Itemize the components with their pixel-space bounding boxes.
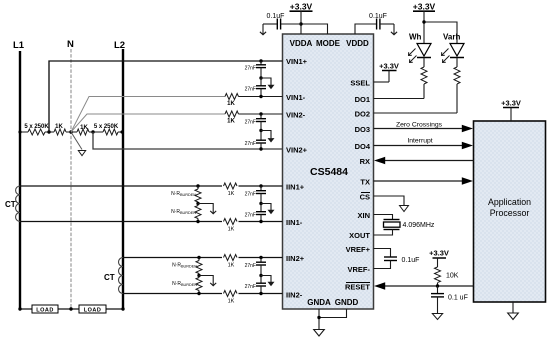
ground (VDDA cap) <box>260 24 266 35</box>
svg-text:IIN2-: IIN2- <box>286 291 303 300</box>
svg-text:27nF: 27nF <box>245 213 256 219</box>
svg-text:0.1uF: 0.1uF <box>369 13 387 20</box>
wire VIN1- to chip <box>239 96 283 98</box>
svg-text:XOUT: XOUT <box>349 231 370 240</box>
svg-text:+3.3V: +3.3V <box>379 62 399 71</box>
capacitor 0.1uF (VDDD) <box>369 13 394 30</box>
svg-text:+3.3V: +3.3V <box>290 2 313 12</box>
ground (App Processor) <box>508 302 519 320</box>
svg-text:L1: L1 <box>13 40 25 51</box>
ground arm IIN2 burden mid <box>197 274 216 286</box>
resistor N·R burden (IIN1 bottom) <box>171 204 201 224</box>
svg-text:Interrupt: Interrupt <box>407 138 432 145</box>
svg-text:DO1: DO1 <box>355 95 370 104</box>
svg-text:27nF: 27nF <box>245 192 256 198</box>
wire SSEL <box>374 81 390 83</box>
ground (VDDD cap) <box>391 24 397 35</box>
pin RESET (active low) <box>345 283 370 292</box>
svg-text:MODE: MODE <box>316 39 341 48</box>
svg-text:VDDD: VDDD <box>346 39 369 48</box>
wire LED rail <box>424 22 457 44</box>
svg-text:27nF: 27nF <box>245 263 256 269</box>
resistor 1K (IIN2+) <box>222 254 239 269</box>
ground arm IIN1 cap mid <box>259 202 274 214</box>
svg-text:LOAD: LOAD <box>84 308 102 314</box>
wire DO2 <box>374 112 458 114</box>
wire RESET <box>374 282 474 289</box>
node dot load-L2 <box>121 307 124 310</box>
ground at divider center <box>71 132 86 156</box>
svg-text:Zero Crossings: Zero Crossings <box>396 121 443 128</box>
svg-text:CT: CT <box>5 200 16 209</box>
svg-text:Application: Application <box>488 197 531 207</box>
svg-text:27nF: 27nF <box>245 284 256 290</box>
svg-text:0.1uF: 0.1uF <box>267 13 285 20</box>
Application Processor U2 <box>474 121 546 302</box>
svg-text:0.1uF: 0.1uF <box>402 257 420 264</box>
node N <box>67 39 74 309</box>
svg-text:1K: 1K <box>228 299 235 305</box>
LED Varh D2 <box>442 33 465 63</box>
resistor N·R burden (IIN2 bottom) <box>172 276 202 296</box>
resistor N·R burden (IIN1 top) <box>171 184 201 203</box>
svg-text:0.1 uF: 0.1 uF <box>448 295 468 302</box>
supply +3.3V (VDDA) <box>290 2 313 25</box>
svg-text:DO4: DO4 <box>355 142 371 151</box>
node dot at L1 divider <box>18 130 21 133</box>
svg-text:1K: 1K <box>55 124 63 130</box>
svg-text:1K: 1K <box>227 119 235 125</box>
resistor 5 x 250K (left) <box>24 124 49 135</box>
resistor 1K (N-right) <box>77 125 89 135</box>
load box 2 <box>79 305 106 314</box>
svg-text:TX: TX <box>360 178 370 187</box>
svg-text:1K: 1K <box>80 125 88 131</box>
node junction dot at N <box>69 130 72 133</box>
svg-text:RX: RX <box>360 157 370 166</box>
capacitor 0.1uF (VDDA) <box>263 13 301 30</box>
wire IIN1+ run <box>20 185 283 187</box>
svg-text:+3.3V: +3.3V <box>413 2 436 12</box>
wire DO4 Interrupt <box>374 138 474 150</box>
wire CS to ground <box>374 196 409 212</box>
svg-text:VIN1-: VIN1- <box>286 93 306 102</box>
capacitor 0.1 uF (RESET) <box>431 286 468 314</box>
supply +3.3V (RESET pullup) <box>429 249 449 268</box>
svg-text:N: N <box>67 39 74 50</box>
resistor 1K (IIN2-) <box>222 290 239 305</box>
wire VIN1- diagonal and run <box>71 97 225 133</box>
svg-text:SSEL: SSEL <box>350 79 370 88</box>
node L1 <box>13 40 25 309</box>
resistor 1K (IIN1-) <box>222 218 239 233</box>
transformer CT1 coil on L1 <box>5 186 20 221</box>
svg-text:CS: CS <box>360 193 370 202</box>
node junction dot at x49 <box>47 130 50 133</box>
wire GNDA/GNDD to ground <box>317 309 346 330</box>
ground arm VIN1 mid <box>259 76 274 89</box>
capacitor 27nF (VIN1+ top) <box>245 59 266 78</box>
IC U1 CS5484 body <box>283 34 374 309</box>
ground (RESET cap) <box>432 314 442 320</box>
svg-text:IIN1+: IIN1+ <box>286 183 305 192</box>
capacitor 27nF (VIN1- bottom) <box>245 78 266 98</box>
resistor 1K (IIN1+) <box>222 182 239 197</box>
wire VDDD rail <box>355 24 376 34</box>
svg-text:RESET: RESET <box>345 283 370 292</box>
wire load rail <box>20 308 123 310</box>
svg-text:LOAD: LOAD <box>36 308 54 314</box>
resistor (Varh LED) <box>454 58 460 114</box>
wire IIN2+ run <box>123 257 283 259</box>
wire VIN1+ riser and run to chip <box>49 61 283 132</box>
svg-text:27nF: 27nF <box>245 141 256 147</box>
svg-text:5 x 250K: 5 x 250K <box>24 124 49 130</box>
supply +3.3V (App Processor) <box>501 99 521 122</box>
svg-text:1K: 1K <box>228 263 235 269</box>
transformer CT2 coil on L2 <box>104 258 123 294</box>
svg-text:Wh: Wh <box>409 33 422 42</box>
resistor 1K (L1-N) <box>54 124 66 135</box>
capacitor 27nF (IIN2+ top) <box>245 256 266 276</box>
svg-text:DO2: DO2 <box>355 110 370 119</box>
svg-text:CT: CT <box>104 273 115 282</box>
svg-text:1K: 1K <box>228 227 235 233</box>
resistor 1K (VIN1-) <box>225 94 239 108</box>
svg-text:27nF: 27nF <box>245 66 256 72</box>
svg-text:CS5484: CS5484 <box>310 166 348 178</box>
node L2 <box>114 40 125 309</box>
svg-text:VIN2-: VIN2- <box>286 111 306 120</box>
capacitor 27nF (VIN2+ bottom) <box>245 131 266 151</box>
svg-text:10K: 10K <box>446 273 459 280</box>
svg-text:5 x 250K: 5 x 250K <box>94 124 119 130</box>
pin CS (active low) <box>360 193 370 202</box>
svg-text:GNDD: GNDD <box>335 298 359 307</box>
capacitor 0.1uF (VREF) <box>374 249 420 269</box>
ground arm IIN1 burden mid <box>196 202 216 214</box>
wire IIN2- run <box>123 293 283 295</box>
wire IIN1- run <box>20 221 283 223</box>
resistor N·R burden (IIN2 top) <box>172 256 202 276</box>
node dot load-L1 <box>18 307 21 310</box>
supply +3.3V (SSEL) <box>379 62 399 83</box>
svg-text:+3.3V: +3.3V <box>429 249 449 258</box>
svg-text:VIN1+: VIN1+ <box>286 57 308 66</box>
svg-text:DO3: DO3 <box>355 125 370 134</box>
node dot at L2 divider <box>120 130 123 133</box>
load box 1 <box>32 305 58 314</box>
node junction dot at x93 <box>91 130 94 133</box>
resistor (Wh LED) <box>421 58 427 99</box>
capacitor 27nF (IIN1- bottom) <box>245 204 266 224</box>
capacitor 27nF (VIN2- top) <box>245 112 266 130</box>
ground arm VIN2 mid <box>259 129 274 143</box>
wire DO3 Zero Crossings <box>374 121 474 132</box>
svg-text:1K: 1K <box>227 101 235 107</box>
svg-text:4.096MHz: 4.096MHz <box>403 222 435 229</box>
node dot LED rail <box>422 20 425 23</box>
svg-text:27nF: 27nF <box>245 87 256 93</box>
resistor 10K <box>435 267 459 286</box>
svg-text:27nF: 27nF <box>245 120 256 126</box>
wire VIN2+ drop and run to chip <box>93 132 283 149</box>
svg-text:VREF+: VREF+ <box>346 245 371 254</box>
svg-text:GNDA: GNDA <box>307 298 331 307</box>
crystal Y1 4.096MHz <box>374 215 435 236</box>
wire RX <box>374 157 474 164</box>
svg-text:IIN2+: IIN2+ <box>286 254 305 263</box>
resistor 5 x 250K (right) <box>94 124 119 135</box>
ground arm IIN2 cap mid <box>259 274 274 286</box>
svg-text:+3.3V: +3.3V <box>501 99 521 108</box>
wire VIN2- to chip <box>239 113 283 115</box>
svg-text:Varh: Varh <box>443 33 460 42</box>
svg-text:Processor: Processor <box>490 208 530 218</box>
svg-text:VIN2+: VIN2+ <box>286 146 308 155</box>
wire DO1 <box>374 98 425 100</box>
capacitor 27nF (IIN1+ top) <box>245 184 266 203</box>
svg-text:1K: 1K <box>228 191 235 197</box>
wire VDDA/MODE rail <box>301 24 328 34</box>
wire VIN2- diagonal and run <box>71 114 225 132</box>
capacitor 27nF (IIN2- bottom) <box>245 276 266 296</box>
wire divider row L1 to L2 <box>20 131 123 133</box>
wire TX <box>374 177 474 184</box>
ground (chip) <box>314 330 325 337</box>
svg-text:VREF-: VREF- <box>348 265 371 274</box>
svg-text:VDDA: VDDA <box>290 39 313 48</box>
resistor 1K (VIN2-) <box>225 111 239 125</box>
node dot VDDA rail <box>299 22 302 25</box>
svg-text:IIN1-: IIN1- <box>286 218 303 227</box>
LED Wh D1 <box>409 33 432 63</box>
svg-text:XIN: XIN <box>357 211 370 220</box>
node dot load-N <box>69 307 72 310</box>
supply +3.3V (LED rail) <box>413 2 436 23</box>
